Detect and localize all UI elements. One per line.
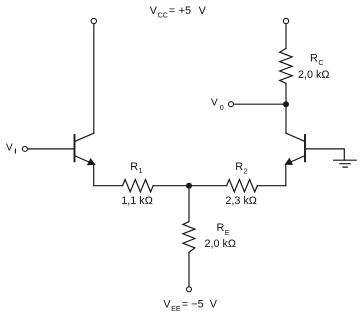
wire Q2 emitter diagonal: [286, 156, 305, 164]
node E junction dot: [186, 183, 192, 189]
svg-text:V: V: [211, 98, 218, 109]
svg-text:V: V: [199, 5, 207, 17]
terminal circle VI: [22, 146, 27, 151]
svg-text:=: =: [182, 299, 188, 311]
wire Q2 base to ground: [305, 149, 344, 160]
svg-text:2,0 kΩ: 2,0 kΩ: [298, 69, 329, 81]
wire emitter to R1: [94, 185, 123, 187]
wire Q2 collector vertical: [285, 83, 287, 133]
wire Q2 emitter vertical: [285, 164, 287, 185]
transistor Q2 base bar: [304, 135, 306, 161]
ground symbol: [334, 160, 357, 167]
label RE: [217, 222, 230, 237]
wire Q1 emitter diagonal: [75, 156, 94, 164]
svg-text:=: =: [169, 5, 175, 17]
svg-text:E: E: [225, 228, 230, 237]
terminal circle VCC right: [283, 18, 288, 23]
label RC: [310, 52, 324, 67]
resistor RC: [280, 49, 293, 84]
transistor Q1 base bar: [74, 135, 76, 161]
wire Q1 emitter vertical: [93, 164, 95, 185]
resistor RE: [183, 222, 195, 253]
svg-text:EE: EE: [171, 304, 181, 313]
svg-text:R: R: [217, 222, 225, 234]
transistor Q1 emitter arrow: [88, 159, 95, 165]
wire Q1 collector vertical: [93, 24, 95, 133]
node V0 junction dot: [283, 101, 289, 107]
svg-text:2: 2: [244, 167, 248, 176]
resistor R2: [227, 180, 258, 192]
svg-text:R: R: [235, 161, 243, 173]
wire Q2 collector diagonal: [286, 133, 305, 141]
svg-text:R: R: [310, 52, 318, 64]
wire V0: [234, 103, 287, 105]
svg-text:C: C: [318, 58, 324, 67]
label VCC = +5 V: [150, 5, 207, 19]
svg-text:+5: +5: [179, 5, 191, 17]
svg-text:R: R: [130, 161, 138, 173]
svg-text:1,1 kΩ: 1,1 kΩ: [121, 195, 152, 207]
label R2: [235, 161, 247, 175]
svg-text:V: V: [210, 299, 218, 311]
svg-text:−5: −5: [191, 299, 203, 311]
wire R2 to Q2 emitter: [257, 185, 286, 187]
svg-text:0: 0: [220, 103, 224, 112]
terminal circle V0: [229, 102, 234, 107]
svg-text:V: V: [150, 5, 158, 17]
svg-text:V: V: [6, 142, 13, 153]
wire Q1 collector diagonal: [75, 133, 94, 141]
label V0: [211, 98, 224, 112]
resistor R1: [123, 180, 154, 192]
label VEE = -5 V: [163, 299, 217, 314]
wire RC to VCC right: [285, 24, 287, 49]
svg-text:2,3 kΩ: 2,3 kΩ: [225, 195, 256, 207]
label VI: [6, 142, 16, 155]
svg-text:I: I: [14, 147, 16, 156]
wire R1 to node E: [153, 185, 226, 187]
wire node E to RE: [188, 186, 190, 222]
transistor Q2 emitter arrow: [286, 159, 293, 165]
wire RE to VEE: [188, 252, 190, 287]
label R1: [130, 161, 142, 175]
terminal circle VEE: [187, 287, 192, 292]
svg-text:CC: CC: [158, 10, 168, 19]
svg-text:2,0 kΩ: 2,0 kΩ: [205, 238, 236, 250]
wire Q1 base: [28, 148, 75, 150]
svg-text:1: 1: [139, 166, 143, 175]
terminal circle VCC left: [91, 18, 96, 23]
